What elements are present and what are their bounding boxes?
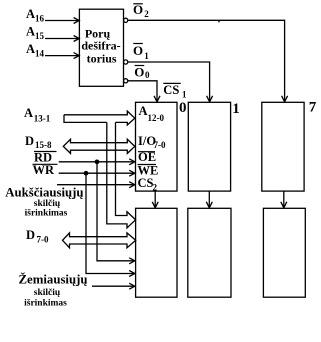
bus D7-0 double arrow — [63, 233, 136, 248]
wire CS2 low select — [92, 283, 135, 289]
label WE — [138, 164, 159, 178]
label A16 — [26, 7, 45, 24]
svg-text:skilčių: skilčių — [34, 288, 61, 298]
memory chip 7 (high byte) — [262, 102, 304, 191]
svg-text:A: A — [26, 42, 35, 56]
svg-text:Aukščiausiųjų: Aukščiausiųjų — [5, 186, 83, 200]
wire O1 to bank 1 — [128, 62, 213, 102]
svg-text:12-0: 12-0 — [148, 113, 165, 123]
svg-text:13-1: 13-1 — [34, 114, 51, 124]
wire WR branch to low chip WE — [86, 173, 135, 276]
memory chip 7 (low byte) — [263, 208, 305, 297]
svg-text:Žemiausiųjų: Žemiausiųjų — [19, 273, 88, 287]
label A14 — [26, 42, 45, 59]
label CS2 — [138, 176, 158, 193]
wire O2 to bank 7 — [128, 20, 288, 102]
bus A12-0 branch to low chip — [107, 122, 136, 227]
label A13-1 — [24, 106, 51, 124]
bus D15-8 double arrow — [63, 139, 135, 153]
wire A16 input arrow — [45, 18, 79, 24]
svg-text:torius: torius — [87, 51, 117, 65]
label D7-0 — [26, 228, 49, 245]
label O2 — [133, 2, 149, 19]
svg-text:0: 0 — [179, 100, 187, 116]
svg-text:išrinkimas: išrinkimas — [24, 299, 67, 309]
svg-text:D: D — [26, 228, 35, 242]
wire WR to WE — [59, 170, 135, 176]
label decoder text — [81, 27, 120, 66]
svg-text:2: 2 — [144, 9, 149, 19]
wire CS chain bank 7 — [281, 191, 287, 208]
svg-text:išrinkimas: išrinkimas — [25, 209, 68, 219]
node RD junction — [95, 160, 98, 163]
svg-text:O: O — [133, 43, 143, 58]
label high byte select — [5, 186, 83, 219]
bubble O2 — [124, 18, 128, 22]
svg-text:16: 16 — [35, 14, 45, 24]
memory chip 1 (low byte) — [188, 208, 231, 297]
wire RD branch to low chip OE — [97, 162, 135, 264]
wire RD to OE — [59, 159, 135, 165]
svg-text:2: 2 — [153, 183, 158, 193]
svg-text:7: 7 — [309, 100, 317, 116]
label I/O7-0 — [138, 134, 166, 150]
label O1 — [133, 43, 149, 61]
label D15-8 — [25, 134, 52, 150]
node WR junction — [84, 172, 87, 175]
svg-text:0: 0 — [145, 70, 150, 80]
svg-text:A: A — [139, 104, 148, 118]
memory chip 1 (high byte) — [188, 102, 230, 191]
svg-text:CS: CS — [163, 83, 179, 97]
svg-text:O: O — [134, 64, 144, 79]
memory chip 0 (high byte) — [136, 102, 178, 191]
bus A13-1 wide arrow — [64, 111, 135, 125]
svg-text:1: 1 — [182, 89, 187, 99]
label low byte select — [19, 273, 88, 309]
label RD — [34, 151, 57, 165]
wire O0 to bank 0 — [128, 81, 160, 102]
wire CS chain bank 0 — [152, 191, 158, 208]
svg-text:CS: CS — [138, 176, 154, 190]
svg-text:D: D — [25, 134, 34, 148]
wire A14 input arrow — [45, 53, 79, 59]
label A15 — [26, 24, 45, 41]
svg-text:1: 1 — [232, 101, 240, 117]
svg-text:A: A — [24, 106, 33, 120]
label WR — [33, 163, 58, 177]
svg-text:15-8: 15-8 — [35, 140, 52, 150]
wire A15 input arrow — [45, 36, 79, 42]
bubble O0 — [124, 79, 128, 83]
wire CS2 high select — [57, 182, 135, 188]
label CS1 — [163, 83, 187, 99]
svg-text:1: 1 — [144, 51, 149, 61]
svg-text:WR: WR — [33, 163, 56, 177]
label OE — [138, 150, 156, 164]
memory chip 0 (low byte) — [136, 208, 177, 297]
svg-text:15: 15 — [35, 31, 45, 41]
bubble O1 — [124, 60, 128, 64]
label A12-0 — [139, 104, 165, 123]
label O0 — [134, 64, 150, 80]
svg-text:A: A — [26, 24, 35, 38]
svg-text:A: A — [26, 7, 35, 21]
wire CS chain bank 1 — [206, 191, 212, 208]
svg-text:7-0: 7-0 — [37, 235, 49, 245]
svg-text:skilčių: skilčių — [34, 199, 61, 209]
svg-text:dešifra-: dešifra- — [81, 38, 120, 52]
svg-text:14: 14 — [35, 48, 45, 58]
svg-text:7-0: 7-0 — [154, 140, 166, 150]
decoder U1 box — [79, 9, 123, 86]
